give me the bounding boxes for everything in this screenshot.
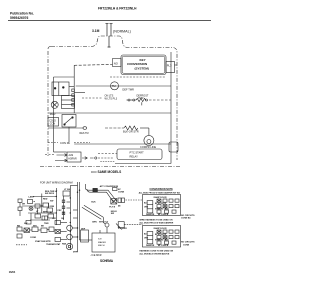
svg-text:CONN B4: CONN B4 <box>181 216 191 219</box>
svg-text:CONVERSION: CONVERSION <box>127 62 147 66</box>
svg-text:MTR: MTR <box>73 252 78 254</box>
svg-text:ON: ON <box>61 218 65 220</box>
svg-text:HARNESS CONN TO BE USED ON: HARNESS CONN TO BE USED ON <box>139 249 173 252</box>
svg-text:FAN: FAN <box>62 243 67 246</box>
svg-text:WH: WH <box>33 226 37 228</box>
svg-text:BLK-OR STR: BLK-OR STR <box>123 129 139 133</box>
svg-text:ALM: ALM <box>69 154 74 157</box>
svg-text:CONVERSION NOTE: CONVERSION NOTE <box>150 188 174 191</box>
svg-text:DAMP DOOR: DAMP DOOR <box>154 196 167 199</box>
svg-text:ORN: ORN <box>50 206 55 208</box>
svg-text:LT SW: LT SW <box>64 189 70 191</box>
svg-text:CON: CON <box>50 123 56 126</box>
svg-text:RES TM: RES TM <box>80 132 89 135</box>
svg-text:WTR VLV: WTR VLV <box>99 222 109 224</box>
svg-text:EVAP FAN MTR: EVAP FAN MTR <box>35 240 51 243</box>
svg-text:BK WH OR RD: BK WH OR RD <box>155 234 167 236</box>
svg-text:••••• SAME MODELS: ••••• SAME MODELS <box>91 170 121 174</box>
svg-text:4E CONN B: 4E CONN B <box>158 244 169 247</box>
svg-text:CON DL: CON DL <box>60 141 71 145</box>
svg-text:WIRE HARNESS TO BE USED ON: WIRE HARNESS TO BE USED ON <box>139 218 173 221</box>
svg-text:THERMOSTAT: THERMOSTAT <box>46 243 61 246</box>
svg-text:SW: SW <box>111 213 114 215</box>
svg-text:BK WH OR RD: BK WH OR RD <box>155 203 167 205</box>
svg-text:ALL MODELS SHOWN ABOVE: ALL MODELS SHOWN ABOVE <box>139 253 170 256</box>
svg-text:RED: RED <box>43 199 48 201</box>
svg-text:SW-DR B: SW-DR B <box>45 193 55 195</box>
svg-text:AFT CONVERSION: AFT CONVERSION <box>100 185 119 188</box>
svg-text:NO CIRCUITS: NO CIRCUITS <box>181 242 195 244</box>
svg-text:(SYSTEM): (SYSTEM) <box>135 67 149 71</box>
svg-text:DEF: DEF <box>81 229 86 231</box>
svg-text:DAMPER: DAMPER <box>146 213 155 216</box>
svg-text:ORN: ORN <box>144 238 149 240</box>
svg-text:GRN: GRN <box>92 222 97 224</box>
svg-text:NO: NO <box>114 61 118 65</box>
svg-text:SW: SW <box>24 223 27 225</box>
svg-text:MAKER: MAKER <box>98 241 106 244</box>
svg-text:MECH: MECH <box>98 245 105 247</box>
svg-text:BK: BK <box>41 226 45 228</box>
svg-text:3.1M: 3.1M <box>92 29 100 33</box>
svg-text:ICE MKR: ICE MKR <box>118 228 127 230</box>
svg-text:COND: COND <box>30 237 37 239</box>
svg-text:DR: DR <box>22 204 26 206</box>
svg-text:RED: RED <box>165 239 169 241</box>
svg-text:16/04: 16/04 <box>9 270 16 274</box>
svg-text:DEF TMR: DEF TMR <box>122 88 134 92</box>
svg-text:FOR UNIT WIRING DIAGRAM: FOR UNIT WIRING DIAGRAM <box>40 182 73 185</box>
svg-text:DAMPER: DAMPER <box>146 244 155 247</box>
svg-text:PTC START: PTC START <box>130 150 145 154</box>
svg-text:SW: SW <box>50 201 53 203</box>
svg-text:COMPR LINE: COMPR LINE <box>140 145 156 149</box>
svg-text:4E CONN B: 4E CONN B <box>158 213 169 216</box>
svg-text:RED: RED <box>165 208 169 210</box>
svg-text:DAMP DOOR: DAMP DOOR <box>154 227 167 230</box>
svg-text:BLK: BLK <box>91 201 96 203</box>
svg-text:PLT B: PLT B <box>109 206 115 208</box>
svg-text:CONN: CONN <box>118 191 125 193</box>
svg-text:ALL MOD FRT22 W SIDE DAMPER: ALL MOD FRT22 W SIDE DAMPER <box>139 222 173 225</box>
svg-text:BLK: BLK <box>144 203 148 205</box>
svg-text:RN: RN <box>17 226 21 228</box>
svg-text:4E: 4E <box>118 205 121 208</box>
svg-text:ORN: ORN <box>144 207 149 209</box>
svg-text:BLK: BLK <box>144 234 148 236</box>
svg-text:CONN: CONN <box>183 245 190 247</box>
svg-text:LAMP: LAMP <box>28 196 35 199</box>
svg-text:BRN: BRN <box>43 212 48 214</box>
svg-text:ICE: ICE <box>98 239 102 241</box>
svg-text:MLR: MLR <box>50 112 56 116</box>
svg-text:SCHEMA: SCHEMA <box>100 259 114 263</box>
svg-text:TMR: TMR <box>44 223 49 225</box>
svg-text:FRZ: FRZ <box>58 210 63 212</box>
svg-text:- ICE MKR: - ICE MKR <box>90 254 102 257</box>
svg-text:HORNR: HORNR <box>68 159 77 161</box>
svg-text:TM: TM <box>112 84 117 88</box>
svg-text:ALL MOD FRT22 W SIDE DAMPER KI: ALL MOD FRT22 W SIDE DAMPER KIT B4 <box>139 192 181 195</box>
svg-text:GRY: GRY <box>52 218 57 220</box>
svg-text:W LTS PL3: W LTS PL3 <box>105 97 118 100</box>
svg-text:RELAY: RELAY <box>130 154 139 158</box>
svg-text:FRT22INLH & FRT22INLH: FRT22INLH & FRT22INLH <box>98 7 137 11</box>
svg-text:5995426076: 5995426076 <box>10 16 29 20</box>
svg-text:(NORMAL): (NORMAL) <box>113 30 131 34</box>
